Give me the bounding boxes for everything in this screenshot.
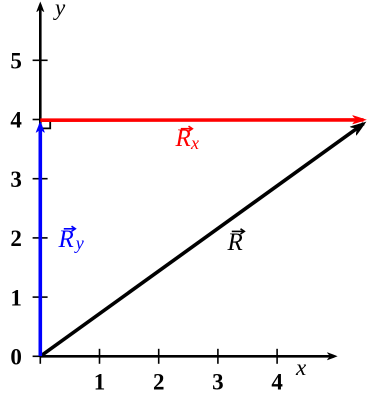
label vector Rx (red) bbox=[175, 125, 200, 153]
x-axis tick x=3 bbox=[217, 349, 219, 364]
label vector Ry (blue) bbox=[58, 226, 84, 253]
y-axis tick y=2 bbox=[33, 237, 48, 239]
svg-text:2: 2 bbox=[10, 226, 22, 251]
y-axis tick y=4 bbox=[33, 119, 48, 121]
right-angle marker at (0,4) bbox=[40, 122, 50, 129]
x-axis tick x=2 bbox=[158, 349, 160, 364]
svg-text:4: 4 bbox=[10, 108, 22, 133]
y-axis tick y=1 bbox=[33, 296, 48, 298]
svg-text:x: x bbox=[295, 355, 307, 380]
svg-text:y: y bbox=[53, 0, 66, 20]
vector R (black) from origin to (5.5,4) bbox=[40, 117, 367, 356]
svg-text:3: 3 bbox=[212, 370, 224, 395]
svg-text:R: R bbox=[58, 226, 74, 253]
y-axis tick y=0 bbox=[33, 355, 41, 357]
y-axis tick y=3 bbox=[33, 178, 48, 180]
svg-text:5: 5 bbox=[10, 49, 22, 74]
svg-text:x: x bbox=[190, 133, 199, 153]
x-axis tick x=4 bbox=[276, 349, 278, 364]
x-axis tick x=1 bbox=[99, 349, 101, 364]
x-axis bbox=[40, 352, 337, 360]
svg-text:0: 0 bbox=[10, 345, 22, 370]
x-axis tick x=0 bbox=[39, 349, 41, 364]
y-axis tick y=5 bbox=[33, 59, 48, 61]
vector Ry (blue) from origin to (0,4) bbox=[36, 121, 45, 356]
svg-text:4: 4 bbox=[271, 370, 283, 395]
svg-text:3: 3 bbox=[10, 167, 22, 192]
svg-text:1: 1 bbox=[94, 370, 106, 395]
svg-text:1: 1 bbox=[10, 285, 22, 310]
svg-text:2: 2 bbox=[153, 370, 165, 395]
svg-text:y: y bbox=[74, 233, 84, 253]
vector Rx (red) from (0,4) to (5.5,4) bbox=[40, 115, 367, 124]
y-axis bbox=[36, 2, 44, 358]
label vector R (black) bbox=[227, 229, 245, 256]
